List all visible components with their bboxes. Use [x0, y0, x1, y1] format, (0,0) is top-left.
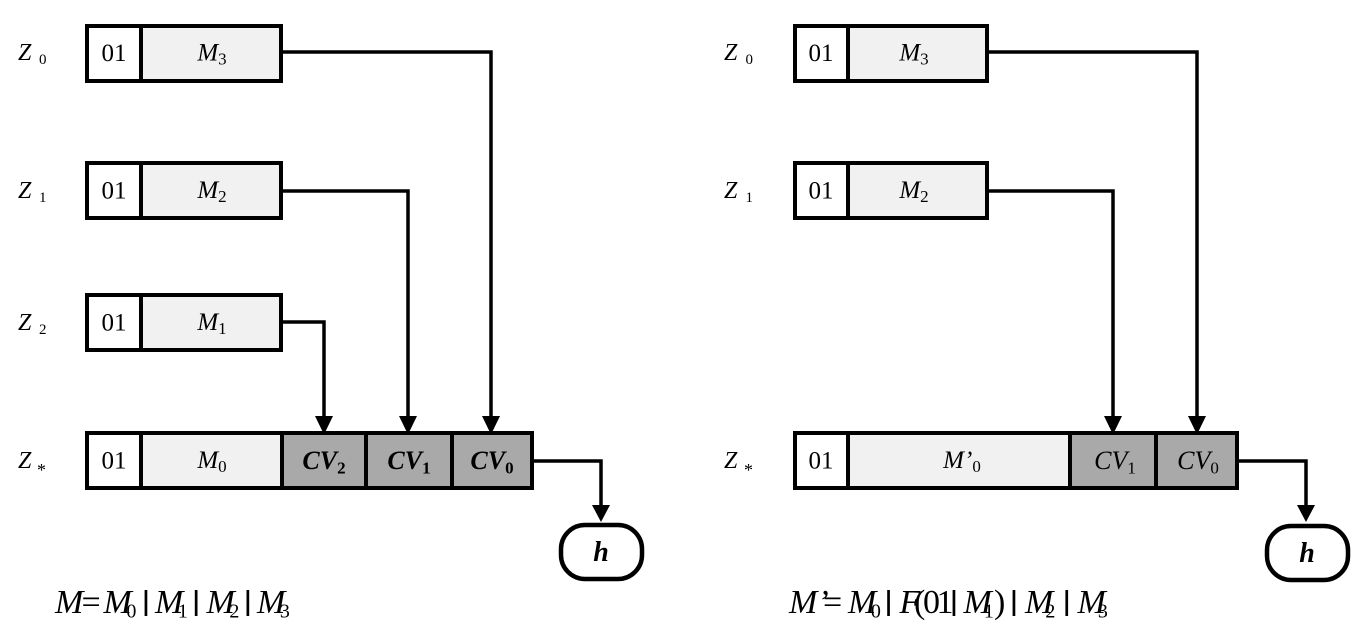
box M1-left	[141, 295, 281, 350]
box CV2-left	[282, 433, 366, 488]
value M1-left	[196, 309, 226, 338]
value 01 row Zstar-right	[809, 448, 834, 475]
value M'0-right	[942, 447, 981, 476]
value 01 row Z0-left	[102, 40, 127, 67]
wire M2-right to CV1-right	[987, 191, 1113, 417]
box M'0-right	[848, 433, 1070, 488]
svg-text:Z: Z	[18, 40, 32, 66]
svg-text:01: 01	[102, 40, 127, 67]
wire CV0-left to h-left	[533, 461, 601, 508]
box 01 row Z1-right	[795, 163, 848, 218]
label Zstar-right	[724, 448, 753, 480]
box M3-right	[848, 26, 987, 81]
node h-left	[561, 525, 642, 579]
svg-text:0: 0	[746, 52, 754, 68]
arrowhead into h-left	[592, 505, 610, 522]
svg-text:01: 01	[102, 310, 127, 337]
value CV0-left	[470, 446, 513, 478]
svg-text:M2: M2	[206, 584, 240, 623]
svg-text:h: h	[1299, 538, 1315, 569]
svg-text:M0: M0	[103, 584, 137, 623]
svg-text:01: 01	[102, 178, 127, 205]
value M2-left	[196, 177, 226, 206]
label Z1-left	[18, 178, 47, 206]
svg-text:Z: Z	[18, 448, 32, 474]
svg-text:1: 1	[746, 190, 754, 206]
svg-text:=: =	[82, 584, 101, 621]
value 01 row Zstar-left	[102, 448, 127, 475]
arrowhead into CV1-right	[1104, 416, 1122, 435]
value CV1-left	[387, 446, 430, 478]
svg-text:2: 2	[39, 322, 47, 338]
svg-text:M3: M3	[1077, 584, 1108, 623]
label Z0-left	[18, 40, 47, 68]
svg-text:Z: Z	[18, 310, 32, 336]
svg-text:M1: M1	[154, 584, 188, 623]
svg-text:Z: Z	[724, 40, 738, 66]
svg-text:Z: Z	[724, 448, 738, 474]
svg-text:*: *	[744, 460, 753, 480]
box 01 row Zstar-right	[795, 433, 848, 488]
box CV0-right	[1156, 433, 1237, 488]
wire CV0-right to h-right	[1237, 461, 1306, 508]
arrowhead into CV1-left	[399, 416, 417, 435]
box CV0-left	[452, 433, 532, 488]
arrowhead into CV2-left	[315, 416, 333, 435]
wire M1-left to CV2-left	[281, 322, 324, 417]
svg-text:h: h	[593, 537, 609, 568]
svg-text:Z: Z	[724, 178, 738, 204]
caption right: M' = M0 | F(01| M1) | M2 | M3	[788, 584, 1108, 623]
value M2-right	[898, 177, 928, 206]
svg-text:Z: Z	[18, 178, 32, 204]
label Z2-left	[18, 310, 47, 338]
box M3-left	[141, 26, 281, 81]
box M0-left	[141, 433, 282, 488]
label Z1-right	[724, 178, 753, 206]
svg-text:M2: M2	[1024, 584, 1055, 623]
svg-text:): )	[994, 584, 1005, 621]
value 01 row Z0-right	[809, 40, 834, 67]
box 01 row Z2-left	[87, 295, 141, 350]
svg-text:01: 01	[102, 448, 127, 475]
caption left: M = M0 | M1 | M2 | M3	[54, 584, 290, 623]
box CV1-right	[1070, 433, 1156, 488]
node h-right	[1267, 526, 1348, 580]
svg-text:M3: M3	[256, 584, 290, 623]
value CV2-left	[302, 446, 345, 478]
svg-text:0: 0	[39, 52, 47, 68]
box M2-left	[141, 163, 281, 218]
box 01 row Zstar-left	[87, 433, 141, 488]
value CV0-right	[1177, 446, 1219, 478]
wire M3-left to CV0-left	[281, 52, 491, 417]
svg-text:=: =	[823, 584, 842, 621]
box CV1-left	[366, 433, 452, 488]
label Z0-right	[724, 40, 753, 68]
svg-text:01: 01	[809, 178, 834, 205]
box 01 row Z0-right	[795, 26, 848, 81]
svg-text:M0: M0	[847, 584, 881, 623]
value M3-right	[898, 40, 928, 69]
svg-text:01: 01	[809, 448, 834, 475]
svg-text:*: *	[37, 460, 46, 480]
box 01 row Z0-left	[87, 26, 141, 81]
arrowhead into h-right	[1297, 505, 1315, 522]
value 01 row Z1-left	[102, 178, 127, 205]
value M3-left	[196, 40, 226, 69]
box M2-right	[848, 163, 987, 218]
arrowhead into CV0-left	[482, 416, 500, 435]
value 01 row Z2-left	[102, 310, 127, 337]
label Zstar-left	[18, 448, 46, 480]
svg-text:01: 01	[809, 40, 834, 67]
value M0-left	[196, 447, 226, 476]
wire M3-right to CV0-right	[987, 52, 1197, 417]
value CV1-right	[1094, 446, 1136, 478]
svg-text:1: 1	[39, 190, 47, 206]
svg-text:M1: M1	[963, 584, 994, 623]
arrowhead into CV0-right	[1188, 416, 1206, 435]
value 01 row Z1-right	[809, 178, 834, 205]
svg-text:M: M	[54, 584, 85, 621]
wire M2-left to CV1-left	[281, 191, 408, 417]
svg-text:1: 1	[937, 584, 954, 621]
box 01 row Z1-left	[87, 163, 141, 218]
